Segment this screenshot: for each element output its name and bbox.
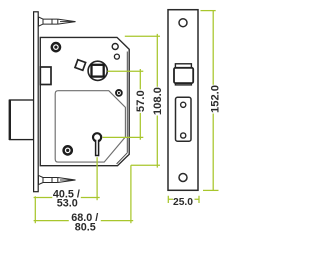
top screw hole: [179, 19, 187, 27]
latch bolt front: bottom cap: [175, 83, 191, 85]
escutcheon plate: [176, 97, 192, 141]
small hole upper right: [112, 44, 118, 50]
top-left case screw: [52, 43, 60, 51]
inner mechanism panel: [55, 91, 125, 162]
top screw: [39, 17, 76, 26]
latch follower square on case left: [40, 67, 51, 85]
spindle square: [92, 65, 104, 77]
dim 108 line: [156, 34, 158, 168]
dim 57 line: [139, 69, 141, 140]
ext keyhole down: [96, 157, 98, 200]
svg-text:53.0: 53.0: [57, 197, 78, 209]
latch bolt front: barrel: [174, 68, 193, 83]
bottom-left case screw: [64, 146, 72, 154]
ext case top right: [125, 35, 160, 37]
latch bolt front: top cap: [175, 64, 191, 68]
tilted square stop: [75, 60, 86, 71]
dim2 68/80.5 line: [34, 220, 134, 222]
bottom screw: [39, 175, 76, 184]
deadbolt (thrown, left of faceplate): [10, 100, 34, 140]
keyhole: [93, 133, 101, 155]
dim 152 line: [212, 11, 214, 191]
dim 25 ticks and stubs: [168, 196, 199, 203]
ext vertical case corner down: [130, 165, 132, 223]
spindle follower circle: [88, 61, 107, 80]
ext keyhole right: [103, 136, 144, 138]
small hole lower right: [114, 54, 119, 59]
svg-text:80.5: 80.5: [75, 222, 96, 234]
faceplate front plate: [168, 10, 198, 191]
ext case bottom right: [131, 164, 160, 166]
dim 152 bottom tick: [203, 189, 219, 191]
escutcheon bottom hole: [181, 133, 186, 138]
bottom screw hole: [179, 174, 187, 182]
faceplate (side view): [34, 12, 39, 192]
chamfer screw: [116, 90, 122, 96]
svg-text:108.0: 108.0: [152, 87, 164, 115]
svg-text:152.0: 152.0: [209, 85, 221, 113]
svg-text:57.0: 57.0: [135, 90, 147, 112]
escutcheon top hole: [181, 102, 186, 107]
case inner right edge line: [117, 52, 128, 164]
dim1 40.5/53 line: [34, 197, 100, 199]
ext faceplate down: [34, 196, 36, 223]
lock case outline: [40, 37, 129, 165]
ext spindle right: [107, 70, 143, 72]
dim 152 top tick: [201, 10, 216, 12]
svg-text:25.0: 25.0: [173, 197, 193, 208]
